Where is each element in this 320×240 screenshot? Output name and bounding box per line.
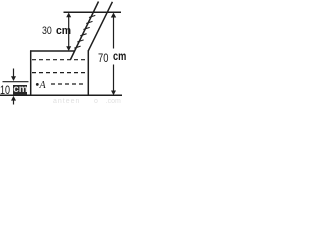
30 cm dimension arrow (vertical, double headed) xyxy=(66,13,71,51)
tank top wall xyxy=(30,50,75,52)
extension line for point A level (left of tank) xyxy=(3,81,29,83)
label cm (of 30 cm) xyxy=(56,26,71,37)
tank bottom wall (extended both sides) xyxy=(0,94,122,96)
label 70 (of 70 cm) xyxy=(98,52,108,64)
water dashed line 3 (level of point A) xyxy=(51,83,85,85)
water dashed line 2 xyxy=(32,72,87,74)
tube scale tick marks xyxy=(74,15,95,48)
10 cm lower arrow (points up to bottom line) xyxy=(11,96,16,105)
label cm (of 10cm, reversed block) xyxy=(13,85,27,95)
inclined tube right line xyxy=(88,2,112,51)
water surface dashed line 1 xyxy=(32,59,87,61)
tank left wall xyxy=(30,50,32,95)
label 10 (of 10cm) xyxy=(0,84,10,96)
faint watermark xyxy=(53,98,80,105)
label 30 (of 30 cm) xyxy=(42,26,52,37)
point A dot xyxy=(36,83,39,86)
tank right wall xyxy=(87,50,89,95)
inclined tube left line xyxy=(71,2,99,60)
10 cm upper arrow (points down to A level line) xyxy=(11,69,16,82)
top reference level line xyxy=(64,11,122,13)
label A xyxy=(40,81,46,91)
label cm (of 70 cm) xyxy=(113,52,126,64)
70 cm dimension arrow (vertical, double headed) xyxy=(111,13,116,96)
